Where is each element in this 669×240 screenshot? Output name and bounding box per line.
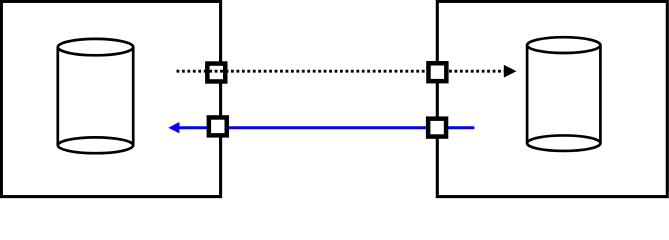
port P2 (top-right, on C2 left border) (428, 63, 446, 81)
dotted arrow wire (C1 to C2) (177, 70, 504, 73)
blue arrow head (168, 122, 179, 133)
component box C1 (left) (1, 1, 220, 196)
port P4 (bottom-right, on C2 left border) (428, 119, 446, 137)
component box C2 (right) (437, 1, 667, 196)
dotted arrow head (504, 65, 517, 78)
port P3 (bottom-left, on C1 right border) (209, 117, 227, 135)
blue arrow wire (C2 to C1) (179, 126, 474, 129)
port P1 (top-left, on C1 right border) (207, 64, 225, 82)
database cylinder DB1 (left) (58, 39, 133, 153)
database cylinder DB2 (right) (527, 37, 600, 151)
